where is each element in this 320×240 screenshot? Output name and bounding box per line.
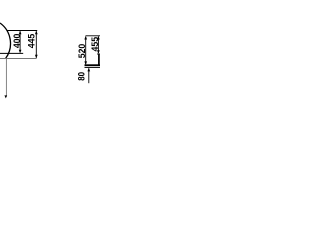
dimension line 400	[19, 31, 21, 52]
extension line top (right view)	[86, 35, 101, 37]
dimension line 520	[85, 37, 87, 64]
svg-text:400: 400	[11, 34, 22, 49]
svg-text:80: 80	[76, 72, 87, 81]
arrow 445 bottom	[35, 55, 38, 59]
arrow 520 top	[84, 36, 87, 40]
arrow 445 top	[35, 31, 38, 35]
arrow 80	[87, 68, 90, 72]
svg-text:455: 455	[89, 37, 100, 52]
svg-text:520: 520	[76, 44, 87, 59]
ledge extension line (right view)	[97, 53, 100, 55]
countertop surface thick line	[85, 64, 101, 66]
arrow 520 bottom	[84, 61, 87, 65]
svg-text:445: 445	[25, 34, 36, 49]
arrow 455 top	[97, 36, 100, 40]
arrow 455 bottom	[97, 50, 100, 54]
countertop underside thin line	[85, 66, 101, 68]
basin rim arc (top view, clipped at left)	[0, 23, 11, 58]
arrow at bottom of projection line	[4, 95, 7, 98]
basin right edge (side view)	[98, 54, 100, 65]
extension line bottom outer (left view)	[0, 57, 37, 59]
extension line bottom inner (left view)	[0, 52, 23, 54]
arrow 400 bottom	[19, 50, 22, 54]
extension line top (left view)	[7, 30, 38, 32]
arrow 400 top	[19, 31, 22, 35]
dimension line 455	[97, 37, 99, 53]
dimension line 80	[88, 68, 90, 83]
dimension line 445	[35, 31, 37, 58]
projection line vertical (gray, below top view)	[5, 58, 7, 96]
